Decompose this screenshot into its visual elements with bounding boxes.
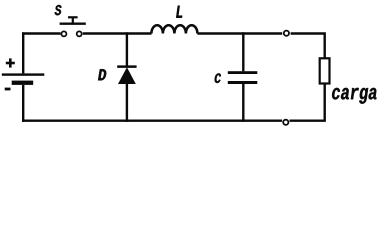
wire capacitor lower — [242, 84, 244, 122]
battery plus label — [6, 62, 15, 65]
battery long plate (positive) — [2, 73, 45, 75]
battery minus label — [5, 88, 11, 91]
load label carga — [332, 88, 376, 104]
load box (carga) — [320, 58, 330, 83]
wire top rail left segment — [22, 32, 61, 34]
inductor L label — [176, 6, 182, 18]
terminal circle bottom right — [283, 120, 288, 125]
wire left vertical lower (battery to bottom rail) — [22, 85, 24, 122]
wire capacitor upper — [242, 32, 244, 71]
terminal circle top right — [284, 31, 289, 36]
battery short thick plate (negative) — [12, 81, 34, 85]
wire load bottom to bottom rail corner — [290, 85, 326, 122]
capacitor C label — [215, 73, 221, 83]
inductor L coils — [151, 25, 197, 33]
wire left vertical upper (corner to battery) — [22, 32, 24, 73]
switch S pushbutton actuator cap — [68, 16, 78, 18]
diode D label — [98, 69, 106, 80]
diode cathode bar — [117, 65, 136, 68]
wire bottom rail — [22, 119, 282, 121]
capacitor top plate — [228, 71, 257, 74]
switch S pushbutton actuator stem — [72, 17, 74, 23]
wire diode lower — [126, 84, 128, 122]
wire top rail: switch to inductor — [83, 32, 152, 34]
switch S label — [55, 5, 62, 15]
capacitor bottom plate — [228, 81, 257, 84]
diode triangle — [118, 67, 136, 84]
switch S right terminal circle — [77, 31, 82, 36]
wire diode upper — [126, 32, 128, 66]
switch S left terminal circle — [61, 31, 66, 36]
wire top rail: inductor to terminal — [197, 32, 282, 34]
switch S pushbutton bar — [60, 23, 86, 25]
wire top right corner to load — [291, 32, 325, 57]
